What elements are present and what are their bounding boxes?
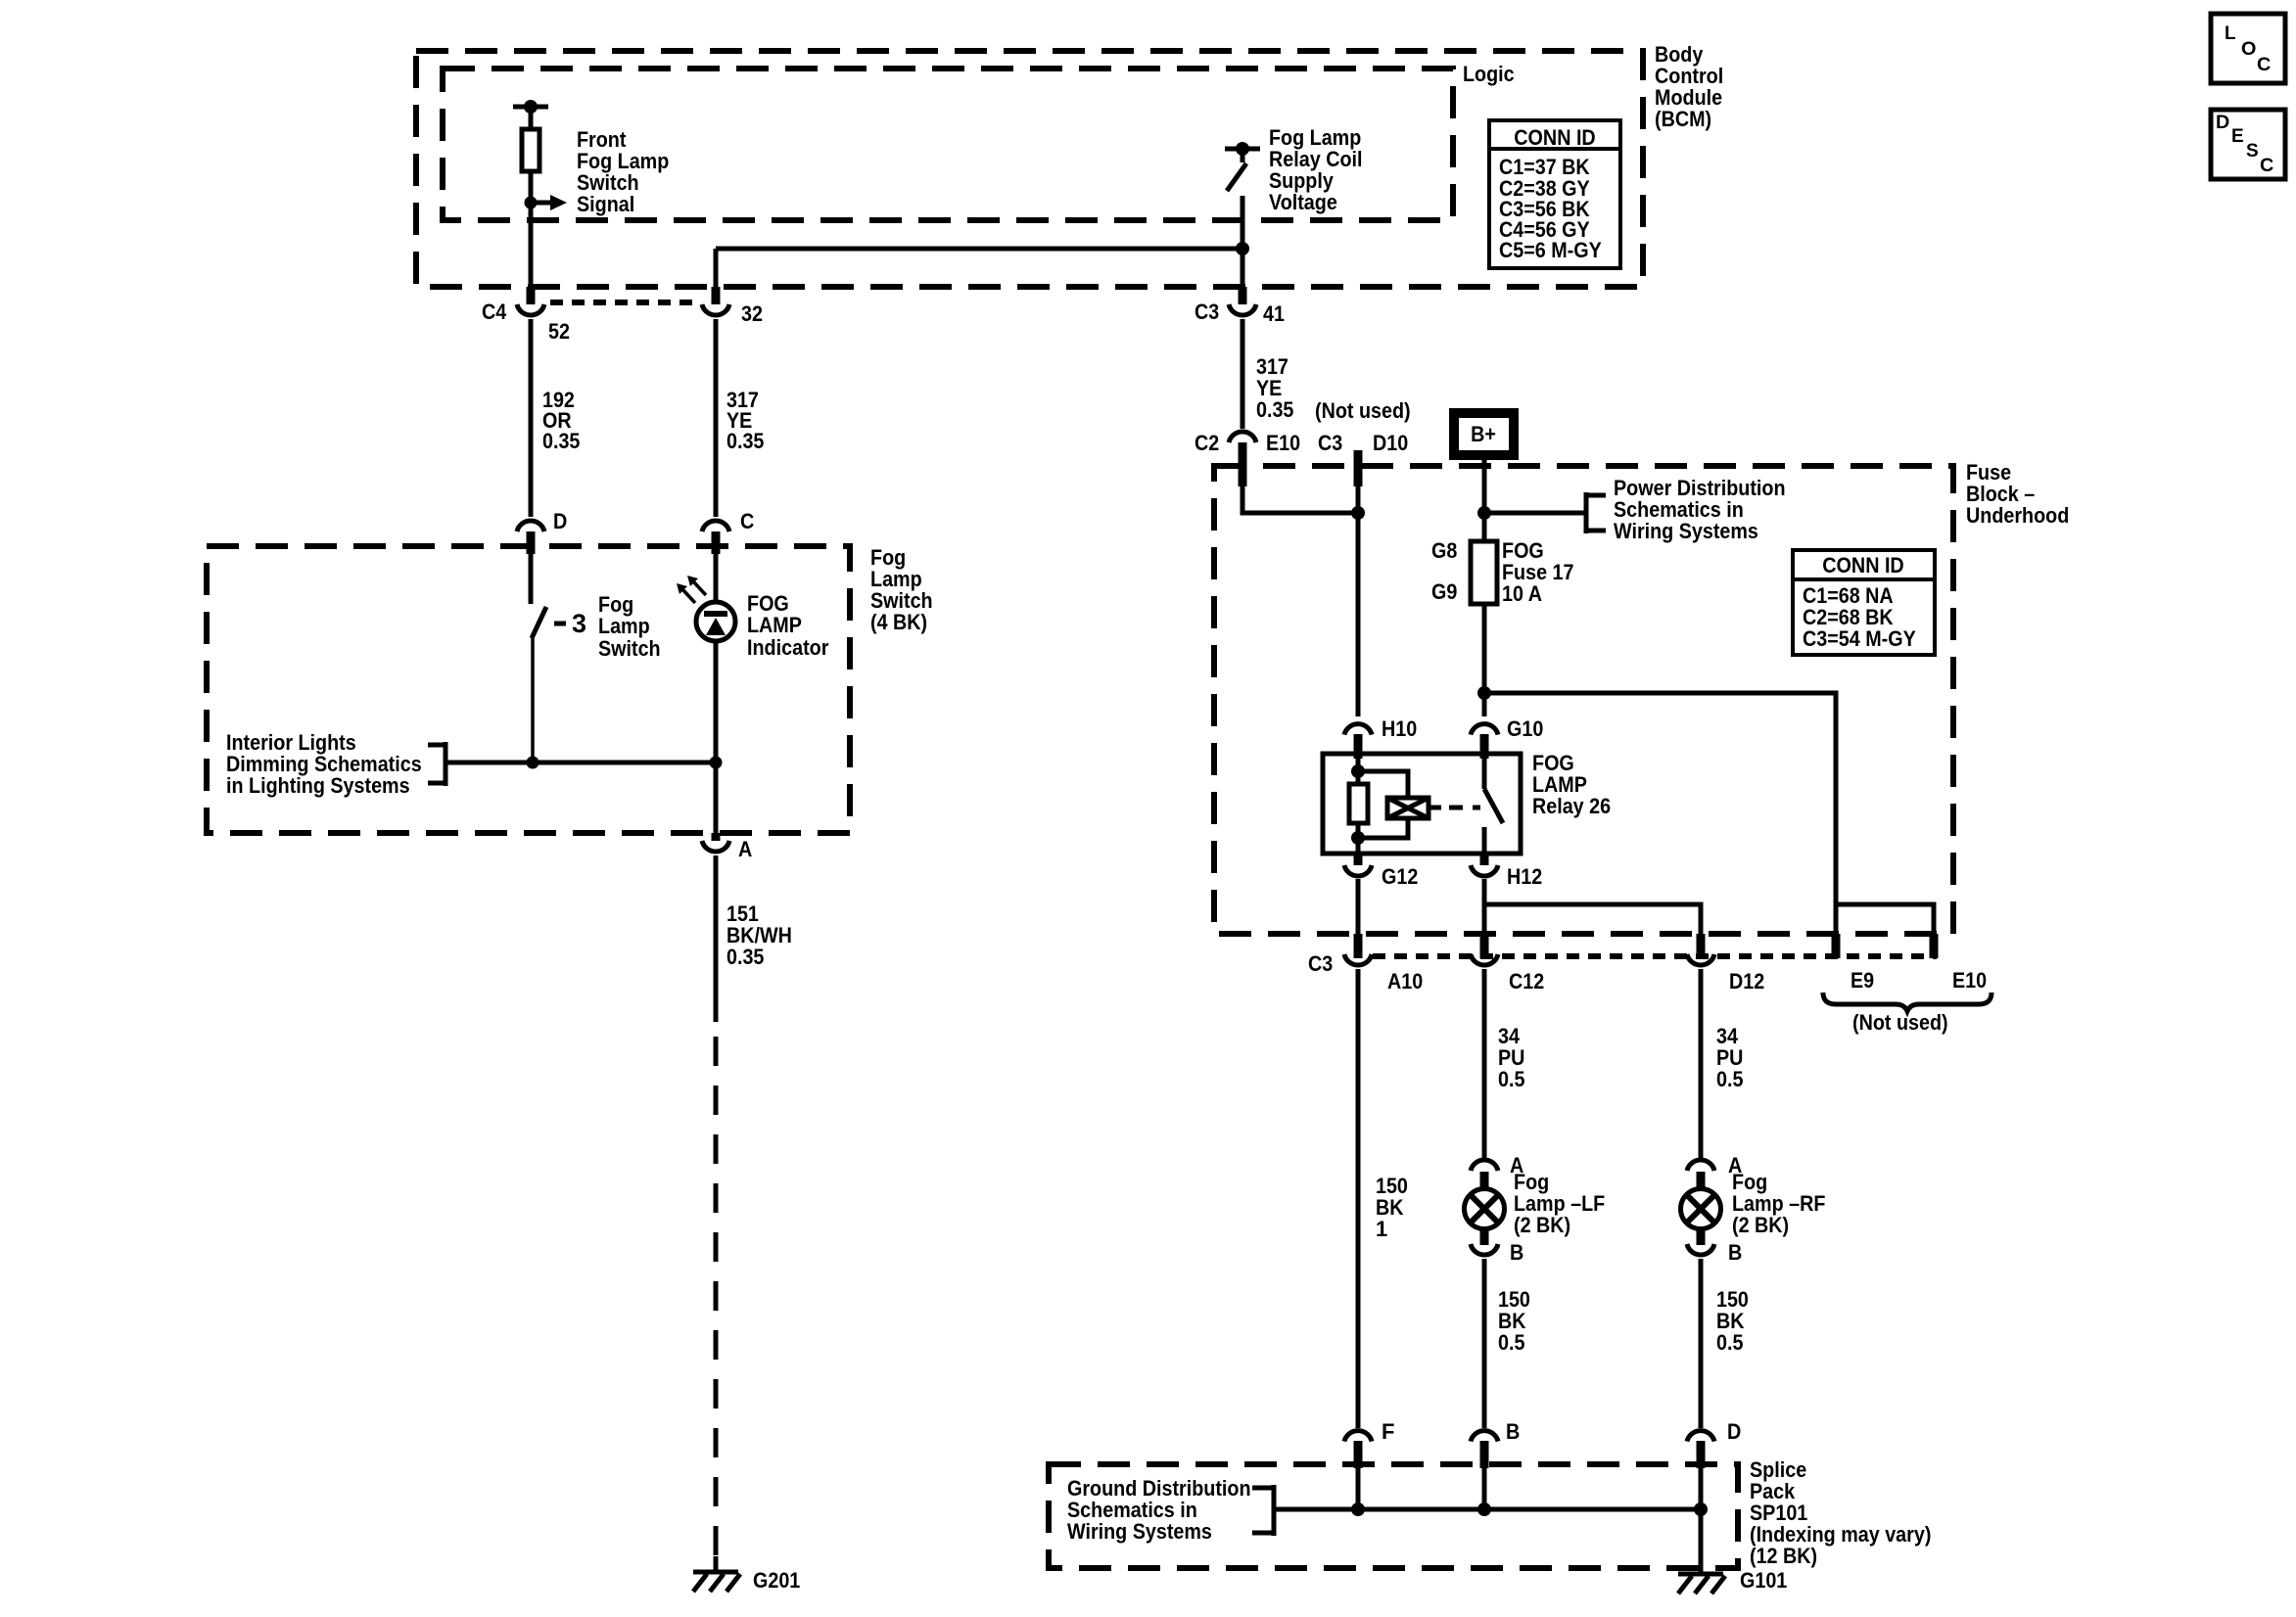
- svg-text:C: C: [2260, 156, 2274, 176]
- wire relay coil supply down: [1241, 196, 1245, 289]
- svg-text:Indicator: Indicator: [747, 635, 829, 660]
- svg-text:B: B: [1728, 1240, 1742, 1265]
- svg-text:Switch: Switch: [598, 636, 661, 661]
- connector pin 32: [702, 287, 729, 315]
- svg-text:G201: G201: [753, 1568, 800, 1593]
- not used brace: [1823, 993, 1991, 1011]
- splice drops: [1356, 1466, 1361, 1509]
- junction: [1236, 242, 1249, 255]
- connector C3 pin D10 stub: [1354, 450, 1363, 486]
- DESC reference box: [2211, 110, 2285, 179]
- wire E9 down: [1834, 904, 1839, 934]
- svg-text:41: 41: [1263, 301, 1285, 326]
- svg-text:0.35: 0.35: [726, 945, 764, 969]
- svg-text:B: B: [1510, 1240, 1523, 1265]
- wire 151 BK/WH solid: [714, 855, 719, 1022]
- svg-text:(4 BK): (4 BK): [870, 610, 927, 634]
- svg-text:G10: G10: [1507, 716, 1543, 741]
- svg-text:(2 BK): (2 BK): [1514, 1213, 1570, 1237]
- svg-text:L: L: [2225, 23, 2236, 44]
- power distribution bracket: [1586, 492, 1606, 533]
- svg-text:C3: C3: [1318, 431, 1342, 455]
- svg-text:3: 3: [572, 609, 586, 638]
- ground G101: [1678, 1574, 1725, 1594]
- junction: [1351, 1502, 1365, 1516]
- Fuse Block Underhood dashed box: [1214, 466, 1953, 934]
- wire H12 down: [1482, 879, 1487, 934]
- svg-text:D: D: [553, 509, 567, 533]
- svg-text:0.5: 0.5: [1498, 1067, 1525, 1091]
- junction: [1477, 686, 1491, 700]
- svg-text:C: C: [2257, 55, 2272, 75]
- relay suppression loop: [1358, 771, 1408, 798]
- svg-text:E10: E10: [1266, 431, 1300, 455]
- B+ symbol: [1449, 408, 1519, 460]
- svg-text:Voltage: Voltage: [1269, 190, 1337, 214]
- connector G12: [1344, 854, 1372, 876]
- svg-text:LAMP: LAMP: [747, 613, 802, 637]
- junction: [1351, 506, 1365, 520]
- Fog Lamp Switch dashed box: [207, 546, 850, 833]
- svg-text:C3: C3: [1195, 300, 1219, 324]
- svg-text:Underhood: Underhood: [1966, 503, 2069, 528]
- svg-text:(2 BK): (2 BK): [1732, 1213, 1789, 1237]
- junction: [1694, 1502, 1708, 1516]
- connector pin A: [702, 833, 729, 852]
- svg-text:Wiring Systems: Wiring Systems: [1614, 519, 1758, 543]
- connector row dotted line: [550, 300, 697, 305]
- svg-text:1: 1: [1376, 1217, 1387, 1241]
- svg-text:C: C: [740, 509, 754, 533]
- fog lamp LF connector B: [1471, 1228, 1498, 1255]
- wire 317 YE right: [1241, 319, 1245, 429]
- wire 150 BK 0.5 left: [1482, 1259, 1487, 1428]
- fog lamp LF connector A: [1471, 1160, 1498, 1190]
- svg-text:(12 BK): (12 BK): [1750, 1544, 1817, 1568]
- wire 34 PU right: [1699, 969, 1704, 1158]
- svg-text:CONN ID: CONN ID: [1514, 125, 1595, 150]
- dimming wire: [445, 761, 716, 765]
- wire B+ down: [1482, 460, 1487, 541]
- connector pin D12: [1687, 954, 1714, 965]
- svg-text:52: 52: [548, 319, 570, 344]
- svg-text:Wiring Systems: Wiring Systems: [1067, 1519, 1212, 1544]
- wire E10 to D10: [1242, 485, 1358, 513]
- svg-text:D10: D10: [1373, 431, 1408, 455]
- CONN ID table fuse block: [1793, 550, 1935, 655]
- svg-text:0.5: 0.5: [1498, 1330, 1525, 1355]
- interior lights dimming bracket: [428, 742, 445, 786]
- svg-text:B: B: [1506, 1419, 1520, 1444]
- wire to pin A: [714, 762, 719, 835]
- svg-text:C12: C12: [1509, 969, 1544, 993]
- svg-text:C2: C2: [1195, 431, 1219, 455]
- svg-text:G12: G12: [1382, 864, 1418, 889]
- svg-text:0.5: 0.5: [1716, 1067, 1744, 1091]
- svg-text:D: D: [2216, 113, 2229, 133]
- fog lamp switch blade: [532, 607, 546, 638]
- svg-text:Signal: Signal: [577, 192, 634, 216]
- relay switch: [1484, 756, 1503, 854]
- FOG LAMP indicator LED: [677, 576, 735, 641]
- svg-text:F: F: [1382, 1419, 1394, 1444]
- connector H10: [1344, 724, 1372, 759]
- CONN ID table BCM: [1489, 120, 1620, 268]
- fog lamp relay coil driver switch (BCM internal): [1225, 142, 1260, 191]
- wire 192 OR: [529, 319, 534, 517]
- svg-text:10 A: 10 A: [1502, 581, 1542, 606]
- wire D10 down to H10: [1356, 485, 1361, 716]
- relay diode box symbol: [1387, 798, 1441, 818]
- svg-text:C5=6 M-GY: C5=6 M-GY: [1499, 238, 1602, 262]
- relay actuator dashed link: [1449, 806, 1480, 810]
- svg-text:G8: G8: [1431, 538, 1457, 563]
- wire to G101: [1699, 1509, 1704, 1575]
- junction: [1477, 1502, 1491, 1516]
- fog lamp LF: [1465, 1189, 1505, 1229]
- LOC reference box: [2211, 14, 2285, 83]
- wire BCM switch signal down to C4: [529, 203, 534, 289]
- connector pin B: [1471, 1431, 1498, 1468]
- svg-text:0.35: 0.35: [1256, 397, 1293, 422]
- connector H12: [1471, 854, 1498, 876]
- connector pin D: [1687, 1431, 1714, 1468]
- svg-text:(BCM): (BCM): [1655, 107, 1711, 131]
- LED wires: [714, 554, 719, 602]
- svg-text:D: D: [1727, 1419, 1741, 1444]
- svg-text:in Lighting Systems: in Lighting Systems: [226, 773, 410, 798]
- svg-text:(Not used): (Not used): [1315, 398, 1411, 423]
- front fog lamp switch signal driver (BCM internal): [513, 100, 567, 210]
- wire right to E9: [1484, 693, 1934, 934]
- fog lamp RF connector A: [1687, 1160, 1714, 1190]
- svg-text:0.5: 0.5: [1716, 1330, 1744, 1355]
- Logic inner dashed box: [443, 69, 1453, 220]
- svg-text:0.35: 0.35: [542, 429, 580, 453]
- svg-text:0.35: 0.35: [726, 429, 764, 453]
- fog lamp switch contact wire: [529, 554, 534, 604]
- svg-text:G9: G9: [1431, 579, 1457, 604]
- connector pin C: [702, 521, 729, 554]
- svg-text:C3: C3: [1308, 951, 1333, 976]
- wire 150 BK 1: [1356, 969, 1361, 1428]
- wire to power distribution bracket: [1484, 511, 1586, 516]
- relay coil branch: [1349, 756, 1368, 854]
- svg-text:E9: E9: [1851, 968, 1874, 993]
- Splice Pack dashed box: [1049, 1464, 1738, 1568]
- svg-text:C3=54 M-GY: C3=54 M-GY: [1803, 626, 1916, 651]
- svg-text:H12: H12: [1507, 864, 1542, 889]
- wire fuse down: [1482, 604, 1487, 716]
- wire 317 YE left: [714, 319, 719, 517]
- fog lamp switch lower wire: [531, 638, 535, 762]
- fog lamp RF: [1681, 1189, 1721, 1229]
- wire horizontal to pin 32: [716, 247, 1242, 252]
- BCM outer dashed box: [416, 51, 1643, 287]
- connector C3 pin 41: [1229, 287, 1256, 315]
- svg-text:Logic: Logic: [1463, 62, 1515, 86]
- switch actuator dash: [554, 622, 566, 626]
- svg-text:Lamp: Lamp: [598, 614, 650, 638]
- connector C2 pin E10: [1229, 432, 1256, 486]
- svg-text:(Not used): (Not used): [1852, 1010, 1948, 1035]
- junction: [527, 757, 539, 769]
- junction: [710, 757, 723, 769]
- junction: [1477, 506, 1491, 520]
- svg-text:A10: A10: [1387, 969, 1423, 993]
- wire H12 branch to D12: [1484, 904, 1701, 934]
- ground distribution bracket: [1252, 1485, 1274, 1536]
- FOG LAMP Relay 26 box: [1323, 754, 1521, 854]
- connector pin D: [517, 521, 544, 554]
- wire G12 down: [1356, 879, 1361, 934]
- connector pin F: [1344, 1431, 1372, 1468]
- fuse FOG Fuse 17: [1471, 541, 1497, 604]
- svg-text:S: S: [2246, 141, 2259, 162]
- svg-text:O: O: [2241, 39, 2256, 60]
- connector C3 pin A10: [1344, 954, 1372, 965]
- fog lamp RF connector B: [1687, 1228, 1714, 1255]
- svg-text:A: A: [738, 837, 752, 861]
- wire 151 dashed to ground: [714, 1037, 719, 1555]
- ground G201: [693, 1572, 740, 1592]
- wire 150 BK 0.5 right: [1699, 1259, 1704, 1428]
- connector G10: [1471, 724, 1498, 759]
- svg-text:Relay 26: Relay 26: [1532, 794, 1611, 818]
- svg-text:E: E: [2231, 126, 2244, 147]
- splice bus wire: [1274, 1507, 1701, 1512]
- svg-text:G101: G101: [1740, 1568, 1787, 1593]
- svg-text:B+: B+: [1471, 422, 1496, 446]
- wire C3 41 to C2: [1241, 319, 1245, 429]
- svg-text:D12: D12: [1729, 969, 1764, 993]
- wire pin 32 drop: [714, 249, 719, 289]
- svg-text:H10: H10: [1382, 716, 1417, 741]
- wire 34 PU left: [1482, 969, 1487, 1158]
- svg-text:E10: E10: [1952, 968, 1987, 993]
- bottom connector row dotted line: [1373, 953, 1937, 959]
- bottom stubs crossing fuse block edge: [1354, 934, 1363, 958]
- svg-text:32: 32: [741, 301, 763, 326]
- svg-text:CONN ID: CONN ID: [1822, 553, 1903, 577]
- svg-text:C4: C4: [482, 300, 507, 324]
- connector C4 pin 52: [517, 287, 544, 315]
- connector pin C12: [1471, 954, 1498, 965]
